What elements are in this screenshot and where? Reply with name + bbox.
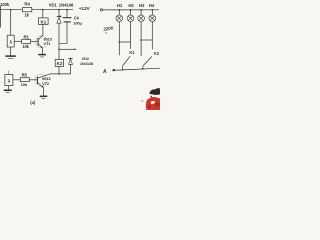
svg-text:K2: K2 bbox=[154, 51, 160, 56]
label 220V bbox=[102, 25, 115, 36]
node K2-collector junction bbox=[58, 73, 60, 75]
svg-text:1N4148: 1N4148 bbox=[80, 61, 94, 66]
diode VD1 bbox=[58, 10, 60, 16]
svg-text:1N4148: 1N4148 bbox=[59, 2, 74, 7]
ground (LDR1) bbox=[5, 55, 16, 57]
svg-text:(a): (a) bbox=[30, 100, 36, 105]
wire H1-H2 tie bbox=[119, 41, 130, 43]
svg-text:R5: R5 bbox=[22, 73, 28, 78]
resistor R4 bbox=[22, 8, 31, 12]
svg-text:A: A bbox=[103, 69, 107, 75]
wire +12V rail bbox=[0, 9, 73, 11]
svg-text:VT1: VT1 bbox=[43, 41, 51, 46]
svg-text:H1: H1 bbox=[117, 3, 123, 8]
ground (VT2 emitter) bbox=[40, 95, 48, 97]
photoresistor RG1 bbox=[7, 35, 14, 47]
transistor VT1 bbox=[35, 36, 47, 48]
wire R1 to VT1 base bbox=[31, 40, 38, 42]
svg-text:K2: K2 bbox=[57, 61, 63, 66]
node bus-H3 bbox=[140, 9, 142, 11]
wire LDR2 bottom lead bbox=[8, 86, 10, 90]
wire LDR1 bottom lead bbox=[10, 47, 12, 55]
capacitor C4 bbox=[66, 10, 68, 18]
svg-text:R1: R1 bbox=[23, 34, 29, 39]
wire VT1 emitter lead bbox=[42, 48, 44, 54]
node bus-H4 bbox=[152, 9, 154, 11]
svg-text:K1: K1 bbox=[129, 50, 135, 55]
photoresistor RG2 bbox=[5, 75, 13, 86]
wire LDR1 top lead bbox=[10, 10, 12, 36]
wire 220V lamp bus bbox=[103, 9, 159, 11]
wire node to A arrow bbox=[59, 48, 74, 50]
svg-text:100μ: 100μ bbox=[73, 20, 82, 25]
wire left page-edge line bbox=[0, 6, 1, 28]
ground (VT1 emitter) bbox=[38, 54, 46, 56]
node rail-LDR junction bbox=[10, 9, 12, 11]
svg-text:H2: H2 bbox=[128, 3, 134, 8]
svg-text:λ: λ bbox=[10, 40, 13, 46]
svg-text:λ: λ bbox=[8, 78, 11, 84]
node rail-VD1 junction bbox=[58, 9, 60, 11]
node H1 tie junction bbox=[119, 41, 121, 43]
svg-text:10k: 10k bbox=[21, 82, 28, 87]
wire K2 coil bottom lead bbox=[58, 66, 60, 74]
diode VD2 bbox=[70, 57, 72, 58]
svg-text:+: + bbox=[59, 14, 62, 19]
wire stage2 collector rail bbox=[50, 73, 71, 75]
svg-text:H4: H4 bbox=[149, 3, 155, 8]
ground (LDR2) bbox=[4, 89, 12, 91]
node H3 tie junction bbox=[140, 39, 142, 41]
svg-text:+12V: +12V bbox=[79, 6, 91, 12]
transistor VT2 bbox=[35, 74, 47, 86]
node rail-C4 junction bbox=[66, 9, 68, 11]
wire A return line bbox=[117, 68, 160, 70]
svg-text:H3: H3 bbox=[139, 3, 145, 8]
node bus-H1 bbox=[119, 9, 121, 11]
terminal 220V input bbox=[100, 9, 102, 11]
svg-text:VD1: VD1 bbox=[49, 2, 58, 7]
wire LDR2 top stub bbox=[8, 71, 10, 75]
wire VT2 emitter lead bbox=[43, 88, 45, 96]
wire H3-H4 tie bbox=[141, 39, 152, 41]
wire LDR1 to R1 bbox=[14, 40, 22, 42]
wire K1 coil top lead bbox=[42, 10, 44, 18]
relay coil K2 bbox=[55, 59, 63, 66]
svg-text:1k: 1k bbox=[24, 12, 29, 17]
node A-feed junction bbox=[58, 49, 60, 51]
svg-text:R4: R4 bbox=[24, 1, 30, 6]
svg-text:100k: 100k bbox=[0, 2, 10, 7]
wire LDR2 to R5 bbox=[13, 79, 20, 81]
svg-text:10k: 10k bbox=[22, 44, 29, 49]
svg-text:VT2: VT2 bbox=[42, 81, 50, 86]
relay coil K1 bbox=[39, 18, 49, 25]
wire R5 to VT2 base bbox=[29, 79, 37, 81]
wire VD1 down to K2 node bbox=[58, 23, 60, 59]
decorative red corner graphic bbox=[141, 88, 160, 110]
node bus-H2 bbox=[130, 9, 132, 11]
node rail-K1 junction bbox=[42, 9, 44, 11]
resistor R1 bbox=[22, 39, 31, 43]
svg-text:K1: K1 bbox=[41, 19, 47, 24]
